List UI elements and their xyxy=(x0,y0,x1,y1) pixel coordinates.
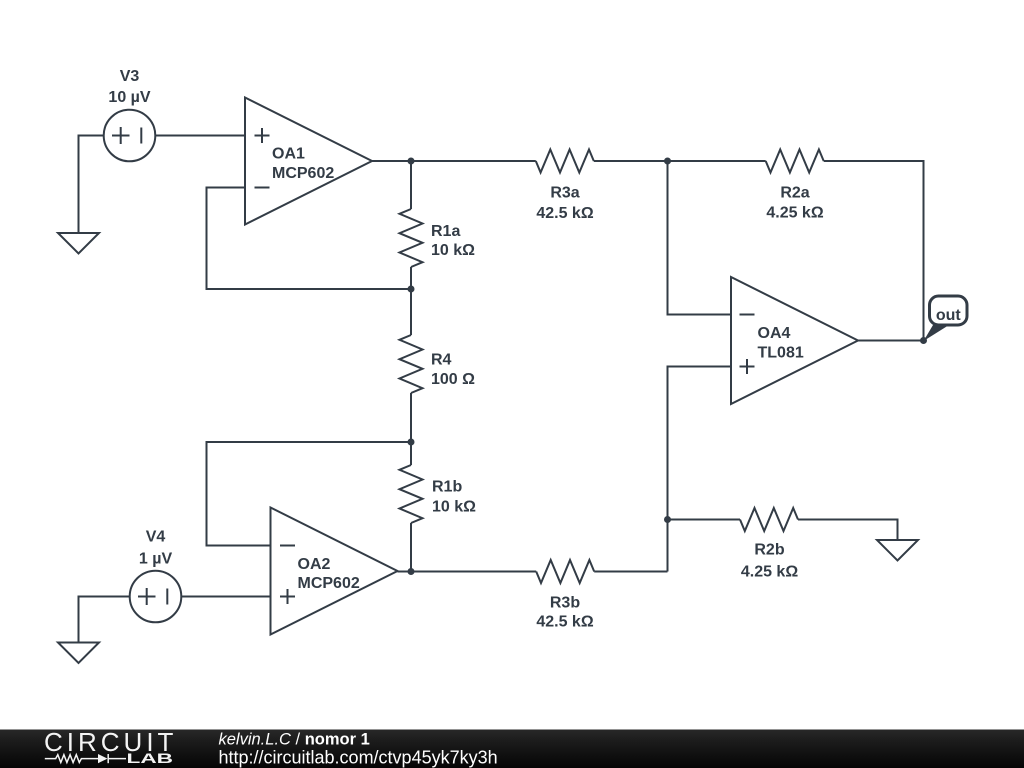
svg-text:LAB: LAB xyxy=(127,751,174,766)
svg-text:R2b: R2b xyxy=(754,541,784,558)
svg-text:42.5 kΩ: 42.5 kΩ xyxy=(536,205,593,222)
svg-text:42.5 kΩ: 42.5 kΩ xyxy=(536,614,593,631)
svg-text:R1a: R1a xyxy=(431,223,460,240)
svg-text:MCP602: MCP602 xyxy=(272,165,334,182)
svg-text:MCP602: MCP602 xyxy=(298,575,360,592)
svg-text:TL081: TL081 xyxy=(758,345,804,362)
svg-text:10 kΩ: 10 kΩ xyxy=(431,242,475,259)
svg-text:V4: V4 xyxy=(146,528,166,545)
svg-text:OA4: OA4 xyxy=(758,325,791,342)
svg-text:R2a: R2a xyxy=(780,184,809,201)
svg-text:4.25 kΩ: 4.25 kΩ xyxy=(766,204,823,221)
svg-text:100 Ω: 100 Ω xyxy=(431,371,475,388)
svg-text:R3b: R3b xyxy=(550,595,580,612)
svg-text:R1b: R1b xyxy=(432,478,462,495)
svg-text:10 µV: 10 µV xyxy=(108,89,150,106)
svg-text:10 kΩ: 10 kΩ xyxy=(432,498,476,515)
svg-text:R4: R4 xyxy=(431,351,452,368)
svg-text:4.25 kΩ: 4.25 kΩ xyxy=(741,563,798,580)
svg-text:OA1: OA1 xyxy=(272,146,305,163)
svg-text:1 µV: 1 µV xyxy=(139,550,173,567)
svg-text:kelvin.L.C / nomor 1: kelvin.L.C / nomor 1 xyxy=(219,730,370,748)
svg-text:OA2: OA2 xyxy=(298,556,331,573)
svg-text:out: out xyxy=(936,307,962,324)
svg-text:http://circuitlab.com/ctvp45yk: http://circuitlab.com/ctvp45yk7ky3h xyxy=(219,748,498,768)
svg-text:R3a: R3a xyxy=(550,184,579,201)
svg-text:V3: V3 xyxy=(120,68,140,85)
